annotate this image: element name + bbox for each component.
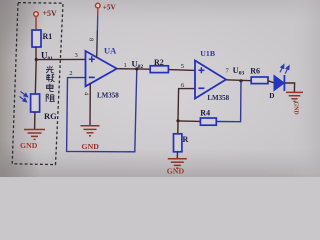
resistor R <box>174 134 182 152</box>
svg-text:UA: UA <box>104 46 117 56</box>
resistor R1 <box>32 30 41 47</box>
op-amp U1B triangle <box>195 61 226 99</box>
svg-text:R: R <box>183 135 189 144</box>
feedback loop UA (pin2 to output) <box>67 69 137 152</box>
svg-text:GND: GND <box>167 167 185 176</box>
resistor R6 <box>251 77 268 84</box>
svg-text:LM358: LM358 <box>97 92 119 100</box>
wire RG to GND <box>34 112 36 130</box>
svg-text:GND: GND <box>20 141 38 150</box>
svg-text:8: 8 <box>87 38 94 41</box>
wire +5V to R1 <box>35 17 37 31</box>
feedback wire U03 down to R4 <box>216 81 241 122</box>
svg-text:CSDN @qq100500223: CSDN @qq100500223 <box>269 169 320 175</box>
wire LED to GND <box>284 83 294 92</box>
电 char <box>47 84 54 92</box>
minus mark <box>89 76 95 78</box>
阻 char <box>46 94 54 102</box>
敏 char <box>46 74 54 82</box>
wire R6 to LED <box>268 81 274 83</box>
junction U02 <box>135 67 138 70</box>
光 char <box>46 66 54 73</box>
LED D <box>274 75 284 90</box>
svg-text:R4: R4 <box>200 108 210 117</box>
svg-text:RG: RG <box>44 111 57 121</box>
resistor R4 <box>200 118 216 125</box>
svg-text:LM358: LM358 <box>207 94 229 102</box>
LED arrows <box>280 65 289 74</box>
photoresistor light arrows <box>20 92 28 102</box>
pin 4 wire to ground <box>89 84 91 126</box>
svg-text:D: D <box>269 92 274 100</box>
wire junction to R <box>177 121 179 134</box>
svg-text:GND: GND <box>82 142 100 151</box>
wire R1 to node U01 <box>35 47 37 60</box>
svg-text:+5V: +5V <box>103 4 117 12</box>
junction (pin6/R4/R) <box>176 119 179 122</box>
wire R2 to pin 5 <box>168 69 195 72</box>
photo background <box>0 0 320 177</box>
wire U1B out through U03 to R6 <box>226 79 251 82</box>
wire +5V to pin 8 <box>97 8 99 16</box>
junction U03 <box>239 79 242 82</box>
ground (R) <box>168 159 187 168</box>
svg-text:R2: R2 <box>154 58 164 67</box>
wire U01 down to RG <box>34 60 37 95</box>
wire U01 to pin3 <box>36 58 86 60</box>
junction U01 <box>35 58 38 61</box>
svg-text:U1B: U1B <box>200 49 215 58</box>
svg-text:1: 1 <box>124 62 127 69</box>
dashed sensor box <box>12 3 63 165</box>
resistor R2 <box>150 66 168 73</box>
minus mark U1B <box>198 87 204 89</box>
plus mark U1B <box>198 67 204 73</box>
ground (sensor) <box>24 130 45 140</box>
svg-text:GND: GND <box>292 101 298 115</box>
svg-text:R6: R6 <box>250 66 260 75</box>
power terminal +5V (left) <box>34 12 39 17</box>
wire UA out to R2 <box>117 68 150 71</box>
svg-text:2: 2 <box>69 70 72 77</box>
wire R to GND <box>176 152 178 159</box>
wire R4 to junction <box>178 120 200 123</box>
pin 6 wire <box>178 89 195 121</box>
ground (LED) <box>286 92 303 101</box>
op-amp UA triangle <box>86 51 117 86</box>
photoresistor RG body <box>31 94 40 112</box>
svg-text:R1: R1 <box>43 32 53 41</box>
ground (UA) <box>81 126 100 136</box>
+5V terminal (top middle) <box>96 3 101 8</box>
svg-text:+5V: +5V <box>43 9 58 18</box>
plus mark <box>89 56 95 62</box>
